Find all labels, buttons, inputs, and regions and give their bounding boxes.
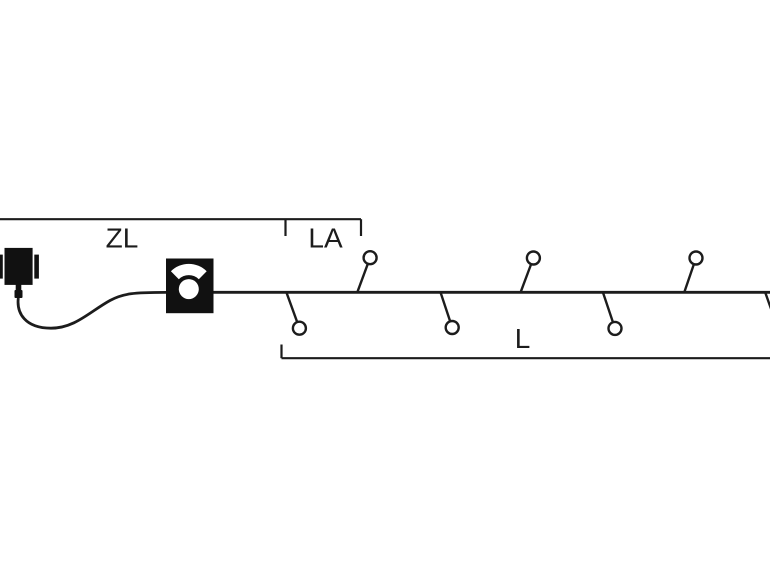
- dimension bracket L: [282, 345, 770, 359]
- lamp E3: [441, 292, 459, 334]
- plug P1: [0, 248, 39, 298]
- lamp E5: [603, 292, 622, 335]
- wire main string: [214, 291, 770, 294]
- controller U1: [166, 259, 214, 314]
- lamp E7 (clipped at right edge): [765, 292, 770, 334]
- dimension bracket ZL/LA: [0, 219, 361, 236]
- controller knob icon: [171, 264, 207, 299]
- lamp E4: [521, 252, 540, 293]
- svg-text:LA: LA: [308, 223, 343, 254]
- lamp E6: [684, 252, 702, 293]
- lamp E2: [357, 251, 376, 292]
- cable from plug to controller: [18, 292, 166, 328]
- lamp E1: [286, 292, 306, 334]
- svg-text:L: L: [515, 323, 531, 354]
- svg-text:ZL: ZL: [106, 223, 139, 254]
